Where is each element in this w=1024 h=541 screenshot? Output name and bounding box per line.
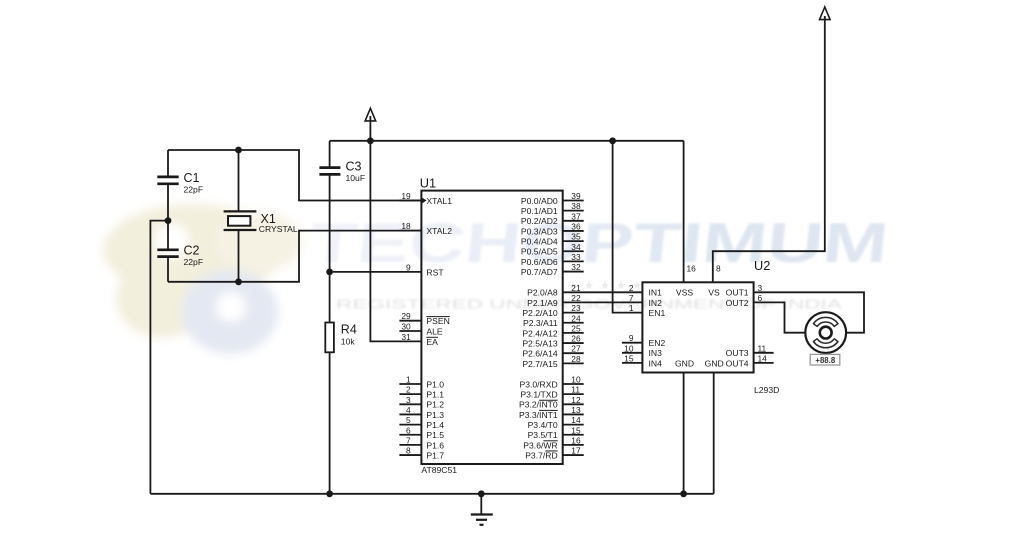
pin 14 P3.4/T0 (U1 right) bbox=[563, 424, 584, 426]
svg-text:IN2: IN2 bbox=[649, 298, 663, 308]
svg-text:★: ★ bbox=[632, 280, 642, 292]
svg-text:32: 32 bbox=[571, 262, 581, 272]
svg-text:C3: C3 bbox=[346, 159, 362, 173]
node: VCC at power arrow bbox=[367, 137, 374, 144]
svg-text:P0.4/AD4: P0.4/AD4 bbox=[521, 237, 558, 247]
svg-text:P2.4/A12: P2.4/A12 bbox=[522, 328, 558, 338]
motor rpm display bbox=[810, 354, 840, 365]
svg-text:P0.0/AD0: P0.0/AD0 bbox=[521, 196, 558, 206]
svg-text:P3.0/RXD: P3.0/RXD bbox=[519, 379, 557, 389]
pin 9 EN2 (U2 left) bbox=[622, 342, 642, 344]
svg-text:P1.1: P1.1 bbox=[426, 390, 444, 400]
node: crystal top junction bbox=[235, 147, 242, 154]
motor top brush arc bbox=[813, 317, 838, 326]
svg-text:P1.7: P1.7 bbox=[426, 450, 444, 460]
svg-text:OUT3: OUT3 bbox=[726, 348, 749, 358]
svg-text:34: 34 bbox=[571, 242, 581, 252]
pin 37 P0.2/AD2 (U1 right) bbox=[563, 220, 584, 222]
crystal X1 bbox=[238, 150, 240, 211]
svg-text:3: 3 bbox=[758, 283, 763, 293]
svg-text:19: 19 bbox=[401, 191, 411, 201]
svg-text:2: 2 bbox=[406, 385, 411, 395]
node: crystal bottom junction bbox=[235, 278, 242, 285]
resistor R4 bbox=[325, 323, 334, 353]
svg-text:29: 29 bbox=[401, 311, 411, 321]
svg-text:P3.4/T0: P3.4/T0 bbox=[528, 420, 558, 430]
pin 13 P3.3/INT1 (U1 right) bbox=[563, 413, 584, 415]
svg-text:OUT1: OUT1 bbox=[726, 288, 749, 298]
svg-text:11: 11 bbox=[758, 343, 767, 353]
svg-text:35: 35 bbox=[571, 232, 581, 242]
svg-text:28: 28 bbox=[571, 354, 581, 364]
wire: C3 branch / RST / R4 vertical bbox=[329, 141, 331, 168]
svg-text:4: 4 bbox=[406, 405, 411, 415]
pin 19 XTAL1 (U1 left) bbox=[399, 200, 421, 202]
svg-text:★: ★ bbox=[616, 280, 626, 292]
svg-text:P3.2/INT0: P3.2/INT0 bbox=[519, 400, 558, 410]
svg-text:8: 8 bbox=[716, 263, 721, 273]
pin 35 P0.4/AD4 (U1 right) bbox=[563, 240, 584, 242]
svg-text:30: 30 bbox=[401, 322, 411, 332]
svg-text:P0.6/AD6: P0.6/AD6 bbox=[521, 257, 558, 267]
pin 33 P0.6/AD6 (U1 right) bbox=[563, 260, 584, 262]
svg-text:7: 7 bbox=[629, 293, 634, 303]
svg-text:U2: U2 bbox=[754, 258, 770, 273]
pin 14 OUT4 (U2 right) bbox=[754, 362, 774, 364]
svg-text:P1.4: P1.4 bbox=[426, 420, 444, 430]
svg-text:P3.6/WR: P3.6/WR bbox=[523, 440, 557, 450]
svg-text:10uF: 10uF bbox=[346, 173, 366, 183]
pin 6 P1.5 (U1 left) bbox=[399, 434, 421, 436]
svg-text:P3.3/INT1: P3.3/INT1 bbox=[519, 410, 558, 420]
svg-text:16: 16 bbox=[687, 263, 697, 273]
svg-text:CRYSTAL: CRYSTAL bbox=[259, 224, 298, 234]
svg-text:P3.7/RD: P3.7/RD bbox=[525, 450, 557, 460]
wire: P2.1 to IN2 bbox=[563, 301, 643, 303]
pin 29 PSEN (U1 left) bbox=[399, 320, 421, 322]
wire: VS to power arrow 2 bbox=[713, 16, 825, 282]
svg-text:AT89C51: AT89C51 bbox=[421, 465, 457, 475]
pin 12 P3.2/INT0 (U1 right) bbox=[563, 403, 584, 405]
svg-text:EN2: EN2 bbox=[649, 338, 666, 348]
svg-text:22pF: 22pF bbox=[184, 185, 204, 195]
wire: XTAL2 to crystal bottom net bbox=[168, 231, 421, 282]
svg-text:6: 6 bbox=[406, 425, 411, 435]
svg-text:PSEN: PSEN bbox=[426, 316, 449, 326]
svg-text:IN4: IN4 bbox=[649, 358, 663, 368]
svg-text:5: 5 bbox=[406, 415, 411, 425]
pin 23 P2.2/A10 (U1 right) bbox=[563, 312, 584, 314]
svg-text:7: 7 bbox=[406, 435, 411, 445]
svg-text:16: 16 bbox=[571, 435, 581, 445]
svg-text:P1.6: P1.6 bbox=[426, 440, 444, 450]
svg-text:IN3: IN3 bbox=[649, 348, 663, 358]
svg-text:15: 15 bbox=[624, 353, 634, 363]
svg-text:22: 22 bbox=[571, 293, 581, 303]
wire: VCC top distribution bbox=[330, 140, 684, 142]
pin 4 P1.3 (U1 left) bbox=[399, 413, 421, 415]
svg-text:33: 33 bbox=[571, 252, 581, 262]
svg-text:15: 15 bbox=[571, 425, 581, 435]
svg-text:2: 2 bbox=[629, 283, 634, 293]
svg-text:GND: GND bbox=[675, 358, 694, 368]
motor bottom brush arc bbox=[813, 339, 838, 348]
node: U2 GND at rail bbox=[680, 490, 687, 497]
svg-text:39: 39 bbox=[571, 191, 581, 201]
pin XTAL1 clock arrow bbox=[421, 197, 426, 203]
svg-text:★: ★ bbox=[600, 280, 610, 292]
pin 11 P3.1/TXD (U1 right) bbox=[563, 393, 584, 395]
svg-text:P0.5/AD5: P0.5/AD5 bbox=[521, 247, 558, 257]
svg-text:31: 31 bbox=[401, 332, 411, 342]
svg-text:U1: U1 bbox=[420, 176, 436, 191]
svg-text:P2.3/A11: P2.3/A11 bbox=[523, 318, 558, 328]
pin 16 P3.6/WR (U1 right) bbox=[563, 444, 584, 446]
svg-text:XTAL2: XTAL2 bbox=[426, 226, 452, 236]
svg-text:C2: C2 bbox=[184, 243, 200, 257]
svg-text:★: ★ bbox=[584, 280, 594, 292]
svg-text:P3.1/TXD: P3.1/TXD bbox=[520, 390, 557, 400]
pin 10 IN3 (U2 left) bbox=[622, 352, 642, 354]
svg-text:P3.5/T1: P3.5/T1 bbox=[528, 430, 558, 440]
svg-text:23: 23 bbox=[571, 303, 581, 313]
svg-text:38: 38 bbox=[571, 201, 581, 211]
svg-text:P0.2/AD2: P0.2/AD2 bbox=[521, 216, 558, 226]
op U1 microcontroller AT89C51 box bbox=[421, 191, 562, 464]
pin 36 P0.3/AD3 (U1 right) bbox=[563, 230, 584, 232]
svg-text:P1.3: P1.3 bbox=[426, 410, 444, 420]
svg-text:P2.6/A14: P2.6/A14 bbox=[522, 349, 558, 359]
svg-text:17: 17 bbox=[571, 446, 581, 456]
wire: VSS to VCC net bbox=[683, 141, 685, 282]
node: ground symbol junction bbox=[478, 490, 485, 497]
svg-text:P2.5/A13: P2.5/A13 bbox=[522, 338, 558, 348]
node: RST / C3 / R4 junction bbox=[326, 269, 333, 276]
pin 11 OUT3 (U2 right) bbox=[754, 352, 774, 354]
pin 32 P0.7/AD7 (U1 right) bbox=[563, 271, 584, 273]
pin 38 P0.1/AD1 (U1 right) bbox=[563, 210, 584, 212]
svg-text:18: 18 bbox=[401, 221, 411, 231]
op U2 motor driver L293D box bbox=[642, 282, 753, 372]
pin 17 P3.7/RD (U1 right) bbox=[563, 454, 584, 456]
pin 15 IN4 (U2 left) bbox=[622, 362, 642, 364]
svg-text:9: 9 bbox=[406, 262, 411, 272]
svg-text:22pF: 22pF bbox=[184, 257, 204, 267]
svg-text:EA: EA bbox=[426, 337, 438, 347]
svg-text:1: 1 bbox=[406, 375, 411, 385]
pin 18 XTAL2 (U1 left) bbox=[399, 230, 421, 232]
svg-text:14: 14 bbox=[758, 353, 768, 363]
svg-text:25: 25 bbox=[571, 323, 581, 333]
svg-text:P2.7/A15: P2.7/A15 bbox=[522, 359, 558, 369]
svg-text:1: 1 bbox=[629, 303, 634, 313]
pin 3 P1.2 (U1 left) bbox=[399, 403, 421, 405]
pin 34 P0.5/AD5 (U1 right) bbox=[563, 250, 584, 252]
svg-text:6: 6 bbox=[758, 293, 763, 303]
node: R4 to ground rail bbox=[326, 490, 333, 497]
motor M1 body bbox=[805, 312, 846, 353]
wire: P2.0 to IN1 bbox=[563, 291, 643, 293]
svg-text:P0.1/AD1: P0.1/AD1 bbox=[521, 206, 558, 216]
svg-text:9: 9 bbox=[629, 333, 634, 343]
capacitor C3 bbox=[319, 166, 340, 169]
svg-text:P1.0: P1.0 bbox=[426, 379, 444, 389]
svg-text:P0.7/AD7: P0.7/AD7 bbox=[521, 267, 558, 277]
wire: VCC drop to EN1 bbox=[613, 141, 643, 313]
pin 27 P2.6/A14 (U1 right) bbox=[563, 352, 584, 354]
svg-text:L293D: L293D bbox=[754, 385, 779, 395]
svg-text:+88.8: +88.8 bbox=[815, 356, 835, 365]
pin 2 P1.1 (U1 left) bbox=[399, 393, 421, 395]
wire: GND pin 1 of U2 to rail bbox=[683, 373, 685, 494]
pin 10 P3.0/RXD (U1 right) bbox=[563, 383, 584, 385]
svg-text:IN1: IN1 bbox=[649, 288, 663, 298]
svg-text:14: 14 bbox=[571, 415, 581, 425]
svg-text:ALE: ALE bbox=[426, 326, 443, 336]
svg-text:37: 37 bbox=[571, 211, 581, 221]
svg-text:RST: RST bbox=[426, 267, 444, 277]
wire: oscillator top (C1 top / crystal top / to XTAL1) bbox=[168, 150, 421, 201]
svg-text:24: 24 bbox=[571, 313, 581, 323]
pin 15 P3.5/T1 (U1 right) bbox=[563, 434, 584, 436]
svg-text:12: 12 bbox=[571, 395, 581, 405]
power symbol (VCC arrow) at motor VS net bbox=[820, 7, 831, 20]
capacitor C1 bbox=[167, 150, 169, 176]
svg-text:R4: R4 bbox=[341, 322, 357, 336]
svg-text:26: 26 bbox=[571, 334, 581, 344]
svg-text:XTAL1: XTAL1 bbox=[426, 196, 452, 206]
wire: C1/C2 midpoint to left ground rail bbox=[150, 221, 168, 494]
svg-text:13: 13 bbox=[571, 405, 581, 415]
svg-text:TECHOPTIMUM: TECHOPTIMUM bbox=[307, 211, 892, 274]
svg-text:27: 27 bbox=[571, 344, 581, 354]
node: C1/C2 midpoint bbox=[165, 217, 172, 224]
svg-text:P1.2: P1.2 bbox=[426, 400, 444, 410]
pin 8 P1.7 (U1 left) bbox=[399, 454, 421, 456]
pin 24 P2.3/A11 (U1 right) bbox=[563, 322, 584, 324]
svg-text:P1.5: P1.5 bbox=[426, 430, 444, 440]
svg-text:P2.1/A9: P2.1/A9 bbox=[527, 298, 558, 308]
svg-text:8: 8 bbox=[406, 446, 411, 456]
wire: power arrow stem down to EA pin bbox=[370, 116, 421, 341]
svg-text:P2.2/A10: P2.2/A10 bbox=[522, 308, 558, 318]
svg-text:10: 10 bbox=[571, 375, 581, 385]
svg-text:VSS: VSS bbox=[676, 288, 693, 298]
svg-text:10k: 10k bbox=[341, 337, 356, 347]
svg-text:OUT2: OUT2 bbox=[726, 298, 749, 308]
wire: GND pin 2 of U2 to rail bbox=[713, 373, 715, 494]
svg-text:VS: VS bbox=[708, 288, 720, 298]
svg-text:REGISTERED UNDER GOVERNMENT OF: REGISTERED UNDER GOVERNMENT OF INDIA bbox=[336, 298, 843, 312]
pin 5 P1.4 (U1 left) bbox=[399, 424, 421, 426]
node: VCC at EN1 drop bbox=[609, 137, 616, 144]
svg-text:C1: C1 bbox=[184, 171, 200, 185]
svg-text:P0.3/AD3: P0.3/AD3 bbox=[521, 226, 558, 236]
power symbol (VCC arrow) at C3/EA net bbox=[365, 108, 376, 121]
pin 39 P0.0/AD0 (U1 right) bbox=[563, 200, 584, 202]
svg-text:11: 11 bbox=[571, 385, 580, 395]
wire: OUT1 to motor right terminal bbox=[754, 292, 864, 332]
svg-text:3: 3 bbox=[406, 395, 411, 405]
pin 28 P2.7/A15 (U1 right) bbox=[563, 362, 584, 364]
svg-text:P2.0/A8: P2.0/A8 bbox=[527, 288, 558, 298]
wire: OUT2 to motor left terminal bbox=[754, 302, 806, 332]
pin 1 P1.0 (U1 left) bbox=[399, 383, 421, 385]
ground bbox=[480, 494, 482, 515]
svg-text:36: 36 bbox=[571, 221, 581, 231]
svg-text:EN1: EN1 bbox=[649, 308, 666, 318]
svg-text:GND: GND bbox=[705, 358, 724, 368]
pin 7 P1.6 (U1 left) bbox=[399, 444, 421, 446]
wire: bottom ground rail bbox=[150, 493, 713, 495]
pin 25 P2.4/A12 (U1 right) bbox=[563, 332, 584, 334]
svg-text:21: 21 bbox=[571, 283, 581, 293]
capacitor C2 bbox=[167, 221, 169, 250]
svg-text:OUT4: OUT4 bbox=[726, 358, 749, 368]
pin 30 ALE (U1 left) bbox=[399, 330, 421, 332]
wire: RST horizontal bbox=[330, 271, 422, 273]
svg-text:10: 10 bbox=[624, 343, 634, 353]
pin 26 P2.5/A13 (U1 right) bbox=[563, 342, 584, 344]
